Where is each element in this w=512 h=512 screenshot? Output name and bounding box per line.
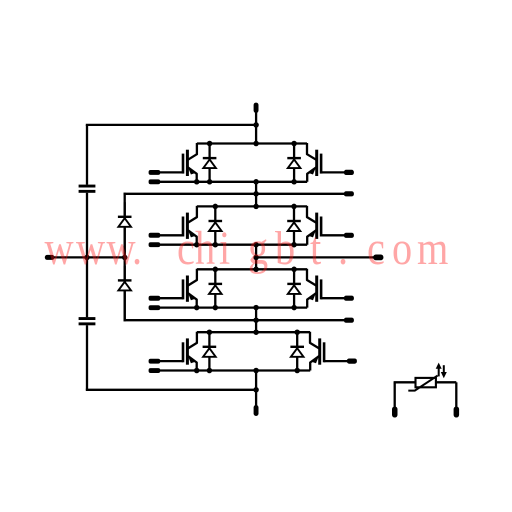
junction AC x center — [253, 255, 259, 261]
terminal gate G3 (left) — [149, 233, 161, 238]
terminal emitter E7 (left) — [149, 368, 161, 373]
capacitor C1 — [79, 185, 96, 193]
wire row4 emitter rail — [159, 369, 311, 371]
terminal DC+ (top) — [254, 103, 259, 113]
wire DC+ horizontal to left rail — [86, 124, 256, 126]
igbt Q8 — [310, 332, 348, 371]
junction DC- corner node — [253, 387, 259, 393]
terminal gate G7 (left) — [149, 359, 161, 364]
igbt Q7 — [159, 332, 197, 371]
junction row3 nodes — [194, 267, 297, 311]
igbt Q1 — [159, 143, 197, 182]
terminal DC- (bottom) — [254, 405, 259, 416]
wire left rail upper segment — [86, 125, 88, 185]
diode D6 — [287, 269, 301, 307]
diode D4 — [287, 206, 301, 244]
diode D8 — [290, 332, 304, 370]
capacitor C2 — [79, 317, 96, 325]
wire bottom DC- horizontal — [86, 389, 256, 391]
wire clamp lower vertical — [124, 257, 126, 321]
junction mid2 x center — [253, 317, 259, 323]
wire row3 emitter to row4 collector — [255, 308, 257, 333]
junction DC+ node — [253, 122, 259, 128]
wire row4 collector rail — [197, 331, 310, 333]
junction N x left rail — [84, 255, 90, 261]
wire T1/T2 junction to gate-side terminal — [124, 193, 346, 195]
igbt Q3 — [159, 206, 197, 245]
clamp diode D6 — [118, 266, 132, 320]
igbt Q4 — [307, 206, 345, 245]
svg-text:.: . — [338, 222, 348, 275]
diode D3 — [209, 206, 223, 244]
wire row2 collector rail — [197, 205, 307, 207]
wire row3 collector rail — [197, 268, 307, 270]
diode D7 — [203, 332, 217, 370]
terminal T1/T2 junction (right) — [344, 191, 354, 196]
svg-text:c: c — [177, 222, 195, 275]
terminal T3/T4 junction (right) — [344, 318, 354, 323]
diode D5 — [209, 269, 223, 307]
svg-text:i: i — [219, 222, 230, 275]
wire row3 emitter rail — [159, 306, 308, 308]
clamp diode D5 — [118, 202, 132, 257]
wire row1 collector rail — [197, 142, 307, 144]
watermark www.chigbt.com — [45, 222, 449, 275]
junction row1 nodes — [194, 141, 297, 185]
wire row2 emitter to AC to row3 collector — [255, 245, 257, 270]
wire AC output — [256, 256, 375, 258]
thermistor RT1 — [394, 376, 457, 407]
terminal RT1 pin 2 — [454, 407, 460, 418]
igbt Q5 — [159, 269, 197, 308]
terminal gate G6 (right) — [344, 296, 354, 301]
svg-text:c: c — [367, 222, 385, 275]
wire left rail lower segment — [86, 325, 88, 390]
svg-text:t: t — [310, 222, 322, 275]
wire DC- vertical to bottom terminal — [255, 371, 257, 407]
wire row2 emitter rail — [159, 244, 308, 246]
junction mid1 x center — [253, 191, 259, 197]
wire N horizontal — [53, 256, 125, 258]
terminal gate G1 (left) — [149, 170, 161, 175]
diode D2 — [287, 144, 301, 182]
svg-text:w: w — [76, 222, 105, 275]
svg-text:o: o — [392, 222, 412, 275]
wire row1 emitter to row2 collector — [255, 182, 257, 207]
junction row2 nodes — [194, 204, 297, 248]
thermistor arrows — [436, 363, 447, 379]
wire T3/T4 junction to terminal — [124, 319, 346, 321]
svg-text:.: . — [132, 222, 142, 275]
wire clamp upper vertical — [124, 193, 126, 258]
terminal gate G4 (right) — [344, 233, 354, 238]
terminal AC (right) — [373, 255, 383, 261]
svg-text:h: h — [195, 222, 215, 275]
terminal N (left) — [45, 255, 55, 260]
terminal gate G5 (left) — [149, 296, 161, 301]
wire left rail middle segment — [86, 193, 88, 317]
terminal gate G8 (right) — [347, 359, 357, 364]
igbt Q6 — [307, 269, 345, 308]
terminal emitter E1 (left) — [149, 179, 161, 184]
svg-text:g: g — [248, 222, 268, 275]
junction row4 nodes — [194, 329, 300, 373]
wire DC+ vertical into row 1 — [255, 112, 257, 143]
igbt Q2 — [307, 143, 345, 182]
svg-text:w: w — [45, 222, 74, 275]
svg-text:b: b — [275, 222, 295, 275]
junction N x clamp line — [122, 255, 128, 261]
diode D1 — [203, 144, 217, 182]
terminal emitter E3 (left) — [149, 242, 161, 247]
wire row1 emitter rail — [159, 181, 308, 183]
svg-text:m: m — [417, 222, 448, 275]
terminal emitter E5 (left) — [149, 305, 161, 310]
terminal gate G2 (right) — [344, 170, 354, 175]
terminal RT1 pin 1 — [392, 407, 398, 418]
